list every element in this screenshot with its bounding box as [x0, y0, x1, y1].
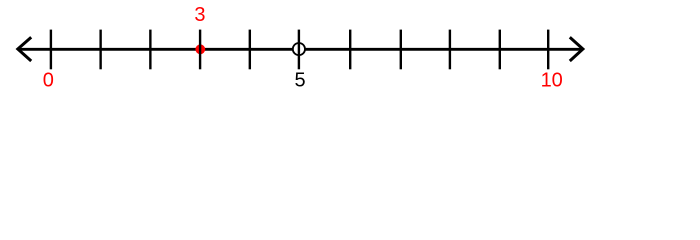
left arrowhead: [18, 37, 31, 61]
filled red point at 3: [195, 44, 205, 54]
svg-text:3: 3: [194, 4, 205, 26]
wire main number line: [18, 48, 583, 51]
tick 2: [149, 30, 151, 70]
tick 4: [249, 30, 251, 70]
tick 7: [400, 30, 402, 70]
svg-text:5: 5: [294, 70, 305, 92]
tick 5: [298, 30, 300, 70]
tick 0: [50, 30, 52, 70]
svg-text:10: 10: [541, 70, 563, 92]
tick 3: [199, 30, 201, 70]
tick 1: [99, 30, 101, 70]
right arrowhead: [570, 37, 583, 61]
tick 10: [547, 30, 549, 70]
svg-text:0: 0: [43, 70, 54, 92]
tick 8: [449, 30, 451, 70]
tick 9: [499, 30, 501, 70]
node open circle at 5: [293, 43, 305, 55]
tick 6: [349, 30, 351, 70]
